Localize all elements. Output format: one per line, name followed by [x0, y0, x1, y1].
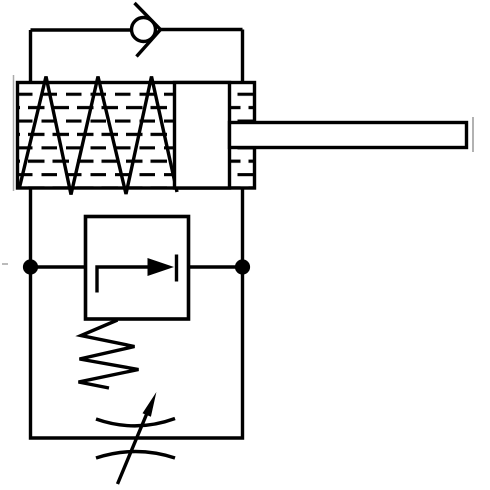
wire top-left: from top-left corner to check valve: [31, 28, 131, 31]
cylinder return spring: [20, 77, 178, 195]
wire right vertical upper: top corner down to cylinder top: [241, 30, 244, 83]
throttle upper arc: [96, 419, 175, 426]
node right junction: [235, 259, 250, 274]
throttle adjustment arrow shaft: [118, 412, 148, 484]
wire branch valve to right: [189, 265, 242, 268]
wire branch left to valve: [31, 265, 86, 268]
wire top-right: check valve to right corner: [160, 28, 243, 31]
artifact gray line right of rod: [472, 117, 474, 152]
artifact gray line left of cylinder: [13, 75, 15, 191]
relief valve V1 internal flow line: [97, 267, 148, 293]
cylinder body (spring-return, dashed fill): [18, 83, 255, 189]
throttle lower arc: [96, 452, 175, 459]
check valve C1 seat (V arms): [135, 3, 161, 57]
relief valve spring: [79, 320, 139, 388]
cylinder piston: [175, 83, 230, 189]
relief valve V1 body: [86, 217, 189, 320]
wire left vertical upper: top corner down to cylinder top: [29, 30, 32, 82]
check valve C1 circle: [132, 18, 156, 42]
piston rod: [230, 123, 467, 148]
throttle adjustment arrowhead: [143, 392, 157, 417]
relief valve V1 arrowhead: [148, 258, 175, 276]
artifact gray tick: [2, 263, 8, 265]
wire left vertical lower + bottom wire + right vertical lower: [31, 188, 243, 438]
node left junction: [23, 259, 38, 274]
relief valve V1 seat bar: [175, 255, 178, 282]
